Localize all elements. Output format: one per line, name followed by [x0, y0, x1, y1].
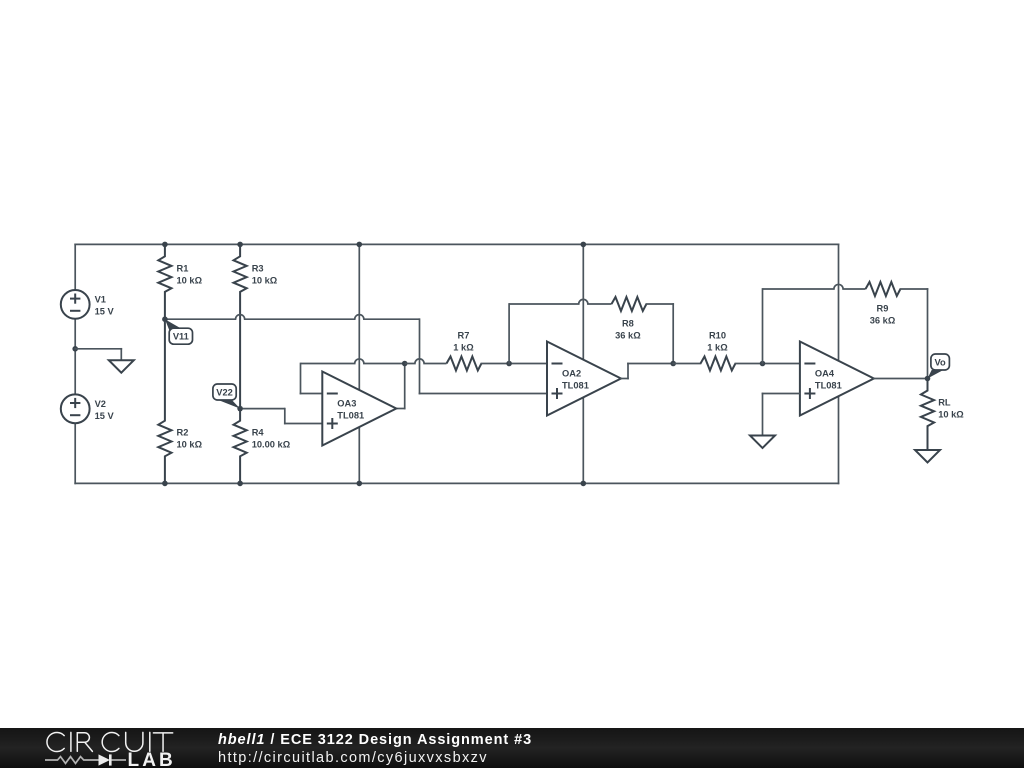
svg-text:10 kΩ: 10 kΩ	[938, 410, 964, 420]
wire OA3 minus loop	[301, 393, 323, 395]
ground G2	[750, 436, 775, 449]
logo diode	[99, 754, 111, 765]
svg-text:TL081: TL081	[337, 411, 364, 421]
flag V11	[165, 319, 182, 332]
svg-text:LAB: LAB	[128, 750, 176, 768]
voltage source V1	[61, 290, 90, 319]
junction OA3 out	[402, 361, 408, 367]
junction OA2 out	[670, 361, 676, 367]
voltage source V2	[61, 394, 90, 423]
svg-text:V11: V11	[173, 332, 189, 342]
wire R9 top left	[763, 284, 866, 289]
wire main to R7	[405, 359, 447, 364]
svg-text:10.00 kΩ: 10.00 kΩ	[252, 440, 291, 450]
wire R7 to OA2 minus	[481, 363, 547, 365]
wire R8 branch up left	[508, 304, 510, 364]
op-amp OA2	[547, 342, 621, 416]
svg-text:V2: V2	[95, 399, 106, 409]
junction R4 bottom	[237, 481, 243, 487]
wire OA4 output	[874, 378, 928, 380]
wire OA3 output	[396, 408, 404, 410]
svg-text:V22: V22	[216, 387, 233, 397]
junction R3 top	[237, 242, 243, 248]
CircuitLab logo wordmark CIRCUIT (thin geometric letters)	[47, 732, 173, 751]
svg-text:OA2: OA2	[562, 369, 581, 379]
resistor RL	[921, 379, 934, 451]
junction rail A bottom	[357, 481, 363, 487]
svg-text:1 kΩ: 1 kΩ	[707, 343, 728, 353]
svg-text:RL: RL	[938, 398, 951, 408]
op-amp OA3	[322, 372, 396, 446]
wire V11 to OA2 plus	[165, 315, 420, 320]
flag Vo	[928, 370, 944, 379]
wire R9 top right	[900, 288, 927, 290]
svg-text:R9: R9	[877, 304, 889, 314]
flag V22	[217, 400, 240, 409]
svg-text:R4: R4	[252, 428, 265, 438]
svg-text:36 kΩ: 36 kΩ	[615, 331, 641, 341]
logo resistor squiggle	[45, 757, 99, 764]
svg-text:TL081: TL081	[815, 381, 842, 391]
wire top rail	[75, 243, 838, 245]
resistor R3	[234, 244, 247, 408]
wire rail B	[582, 244, 584, 483]
resistor R4	[234, 409, 247, 484]
svg-text:36 kΩ: 36 kΩ	[870, 315, 896, 325]
wire V22 to OA3 plus	[240, 408, 285, 410]
wire rail A	[358, 244, 360, 483]
wire right rail	[838, 244, 840, 483]
node Vo	[925, 376, 931, 382]
wire OA4 plus to ground	[763, 393, 800, 395]
junction R8 left	[506, 361, 512, 367]
resistor R7	[447, 357, 482, 371]
svg-text:V1: V1	[95, 294, 106, 304]
svg-text:OA4: OA4	[815, 369, 835, 379]
svg-text:R7: R7	[458, 331, 470, 341]
ground G1	[109, 360, 134, 373]
resistor R1	[158, 244, 171, 319]
svg-text:10 kΩ: 10 kΩ	[252, 275, 278, 285]
wire R10 to OA4 minus	[735, 363, 800, 365]
junction rail B top	[581, 242, 587, 248]
wire OA2 output	[621, 378, 628, 380]
svg-text:OA3: OA3	[337, 399, 356, 409]
resistor R10	[701, 357, 736, 371]
wire left rail middle	[74, 319, 76, 395]
svg-text:R8: R8	[622, 319, 634, 329]
node V22	[237, 406, 243, 412]
junction R1 top	[162, 242, 168, 248]
svg-text:Vo: Vo	[935, 357, 947, 367]
op-amp OA4	[800, 342, 874, 416]
wire R8 top left	[509, 299, 611, 304]
svg-text:1 kΩ: 1 kΩ	[453, 343, 474, 353]
node V11	[162, 316, 168, 322]
junction R1 bottom	[162, 481, 168, 487]
wire R9 branch up left	[762, 289, 764, 364]
junction rail B bottom	[581, 481, 587, 487]
junction R9 left	[760, 361, 766, 367]
svg-text:R10: R10	[709, 331, 726, 341]
ground G3	[915, 450, 940, 463]
svg-text:10 kΩ: 10 kΩ	[177, 275, 203, 285]
wire left rail upper	[74, 244, 76, 290]
wire left rail lower	[74, 423, 76, 483]
wire bottom rail	[75, 482, 838, 484]
wire to ground G1	[75, 348, 121, 350]
svg-text:TL081: TL081	[562, 381, 589, 391]
wire OA2 out to R10	[673, 363, 700, 365]
resistor R9	[866, 282, 901, 296]
svg-text:R3: R3	[252, 263, 264, 273]
svg-text:R1: R1	[177, 263, 189, 273]
svg-text:15 V: 15 V	[95, 411, 115, 421]
node between V1 V2	[72, 346, 78, 352]
resistor R8	[612, 297, 647, 311]
svg-text:15 V: 15 V	[95, 306, 115, 316]
wire R8 top right	[646, 303, 673, 305]
resistor R2	[158, 319, 171, 483]
junction rail A top	[357, 242, 363, 248]
svg-text:10 kΩ: 10 kΩ	[177, 440, 203, 450]
svg-text:R2: R2	[177, 428, 189, 438]
